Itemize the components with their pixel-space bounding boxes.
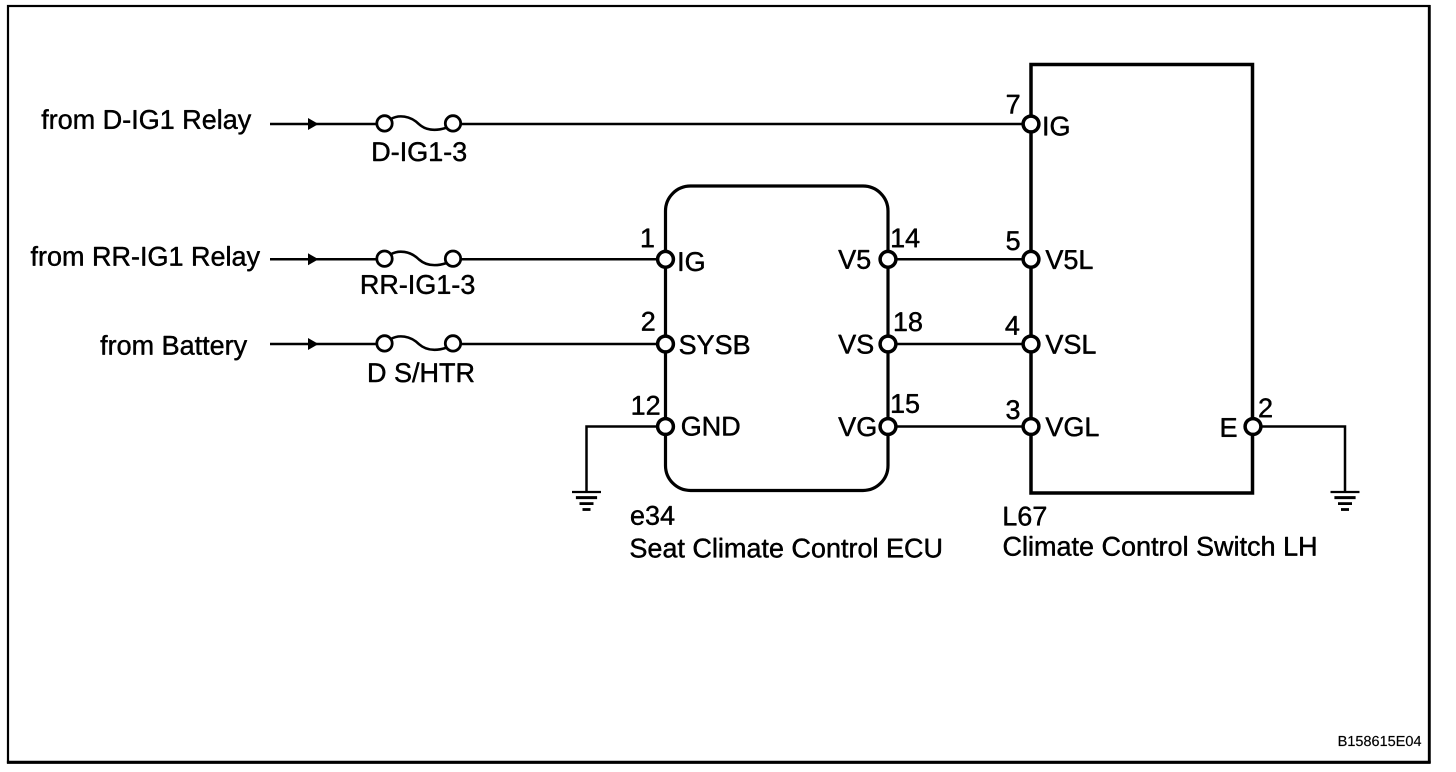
pin 14 V5 of e34	[838, 229, 919, 269]
pin 2 SYSB of e34	[642, 312, 749, 355]
ground symbol at L67 E	[1331, 492, 1360, 510]
fuse D S/HTR	[369, 336, 474, 383]
connector L67 Climate Control Switch LH	[1004, 65, 1316, 556]
wire: e34 V5 pin 14 to L67 V5L pin 5	[896, 258, 1023, 261]
pin 4 VSL of L67	[1006, 316, 1096, 354]
ground symbol at e34 GND	[572, 492, 601, 510]
connector e34 Seat Climate Control ECU	[631, 186, 941, 558]
pin 15 VG of e34	[838, 394, 919, 436]
wire: L67 E pin 2 to chassis ground	[1261, 427, 1346, 492]
pin 3 VGL of L67	[1007, 400, 1099, 436]
pin 1 IG of e34	[642, 229, 704, 272]
pin 5 V5L of L67	[1007, 231, 1093, 269]
pin 18 VS of e34	[838, 312, 922, 354]
wire: fuse D-IG1-3 to pin 7 IG of connector L67	[462, 123, 1024, 126]
wire: e34 VS pin 18 to L67 VSL pin 4	[896, 343, 1023, 346]
fuse D-IG1-3	[373, 116, 466, 162]
wire: e34 GND pin 12 to chassis ground	[587, 427, 658, 492]
pin 12 GND of e34	[633, 396, 740, 436]
label: figure code B158615E04	[1339, 736, 1421, 746]
wire: RR-IG1 Relay feed into fuse RR-IG1-3	[270, 253, 377, 265]
pin 2 E of L67	[1222, 398, 1272, 437]
wire: e34 VG pin 15 to L67 VGL pin 3	[896, 425, 1023, 428]
pin 7 IG of L67	[1007, 95, 1069, 136]
wire: fuse D S/HTR to pin 2 SYSB of connector e34	[462, 343, 658, 346]
wire: fuse RR-IG1-3 to pin 1 IG of connector e34	[462, 258, 658, 261]
wire: D-IG1 Relay feed into fuse D-IG1-3	[270, 118, 377, 130]
node: from Battery	[101, 335, 248, 360]
wire: Battery feed into fuse D S/HTR	[270, 338, 377, 350]
node: from D-IG1 Relay	[42, 109, 252, 134]
fuse RR-IG1-3	[362, 251, 474, 294]
node: from RR-IG1 Relay	[31, 246, 260, 271]
